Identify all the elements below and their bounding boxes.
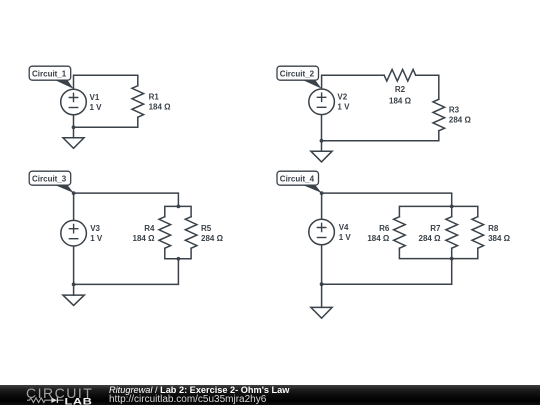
wire C2 top from V2 to R2 [322, 75, 385, 89]
svg-text:184 Ω: 184 Ω [367, 234, 390, 243]
svg-text:Circuit_2: Circuit_2 [280, 70, 315, 79]
junction C4 bottom node [320, 282, 324, 286]
V3 labels [90, 224, 103, 243]
svg-text:1 V: 1 V [339, 233, 352, 242]
svg-text:284 Ω: 284 Ω [449, 116, 472, 125]
resistor R1 [132, 86, 144, 118]
resistor R2 [384, 70, 416, 82]
junction C4 top node [320, 191, 324, 195]
V1 labels [90, 93, 103, 112]
ground C2 [311, 141, 332, 162]
svg-text:1 V: 1 V [90, 103, 103, 112]
resistor R4 [159, 217, 171, 249]
wire C3 parallel bottom bus [165, 248, 191, 259]
R4 labels [133, 224, 156, 243]
wire C4 V4 top lead [321, 193, 323, 219]
ground C1 [63, 127, 84, 148]
svg-text:Circuit_4: Circuit_4 [280, 175, 315, 184]
CircuitLab logo [0, 385, 110, 405]
R8 labels [488, 224, 511, 243]
node flag Circuit_3 [29, 171, 73, 193]
resistor R8 [472, 217, 484, 249]
svg-text:R1: R1 [149, 92, 160, 101]
R3 labels [449, 106, 472, 125]
junction C2 bottom node [320, 139, 324, 143]
voltage source V1 [61, 89, 87, 115]
svg-text:V3: V3 [90, 224, 100, 233]
svg-text:R2: R2 [395, 85, 406, 94]
svg-text:V4: V4 [339, 223, 349, 232]
junction C3 pair bottom [177, 257, 181, 261]
wire C1 bottom from R1 to V1 [74, 115, 138, 128]
wire C3 top from node to parallel pair [74, 193, 179, 206]
footer caption [109, 386, 289, 405]
junction C3 bottom node [72, 283, 76, 287]
svg-text:1 V: 1 V [337, 103, 350, 112]
junction C4 trio bottom [450, 257, 454, 261]
junction C3 pair top [177, 205, 181, 209]
resistor R5 [185, 217, 197, 249]
svg-text:Circuit_3: Circuit_3 [32, 175, 67, 184]
wire C4 bottom from trio to V4 [322, 245, 452, 284]
wire C3 bottom from pair to V3 [74, 246, 179, 284]
logo resistor-diode glyph [27, 397, 64, 402]
wire C4 top from node to parallel trio [322, 193, 452, 206]
wire C3 V3 top lead [73, 193, 75, 220]
wire C1 top from V1 to R1 [74, 75, 138, 89]
R7 labels [419, 224, 442, 243]
resistor R3 [433, 99, 445, 131]
wire C4 R7 bottom lead [451, 248, 453, 258]
svg-text:LAB: LAB [65, 397, 93, 405]
wire C3 parallel top bus [165, 206, 191, 216]
svg-text:1 V: 1 V [90, 234, 103, 243]
V2 labels [337, 93, 350, 112]
voltage source V4 [309, 219, 335, 245]
svg-text:R5: R5 [201, 224, 212, 233]
node flag Circuit_1 [29, 66, 73, 89]
voltage source V3 [61, 220, 87, 246]
svg-text:Circuit_1: Circuit_1 [32, 70, 67, 79]
svg-text:184 Ω: 184 Ω [149, 102, 172, 111]
wire C2 right from R2 to R3 [416, 75, 439, 99]
wire C4 R7 top lead [451, 206, 453, 216]
R5 labels [201, 224, 224, 243]
resistor R7 [446, 217, 458, 249]
junction C4 trio top [450, 205, 454, 209]
footer bar [0, 385, 540, 405]
resistor R6 [394, 217, 406, 249]
node flag Circuit_4 [277, 171, 322, 193]
R2 labels [389, 85, 412, 106]
junction C3 top node [72, 191, 76, 195]
R1 labels [149, 92, 172, 111]
wire C4 parallel bottom bus [399, 248, 477, 258]
wire C4 parallel top bus [399, 206, 477, 216]
svg-text:R3: R3 [449, 106, 460, 115]
svg-text:284 Ω: 284 Ω [419, 234, 442, 243]
svg-text:R6: R6 [379, 224, 390, 233]
R6 labels [367, 224, 390, 243]
svg-text:384 Ω: 384 Ω [488, 234, 511, 243]
wire C2 bottom from R3 to V2 [322, 115, 439, 141]
svg-text:V1: V1 [90, 93, 100, 102]
svg-text:R8: R8 [488, 224, 499, 233]
svg-text:184 Ω: 184 Ω [389, 97, 412, 106]
junction C1 bottom node [72, 125, 76, 129]
ground C4 [311, 284, 332, 318]
ground C3 [63, 284, 84, 305]
svg-text:184 Ω: 184 Ω [133, 234, 156, 243]
V4 labels [339, 223, 352, 242]
svg-text:R7: R7 [430, 224, 441, 233]
svg-text:R4: R4 [144, 224, 155, 233]
svg-text:V2: V2 [337, 93, 347, 102]
svg-text:284 Ω: 284 Ω [201, 234, 224, 243]
node flag Circuit_2 [277, 66, 322, 88]
voltage source V2 [309, 89, 335, 115]
